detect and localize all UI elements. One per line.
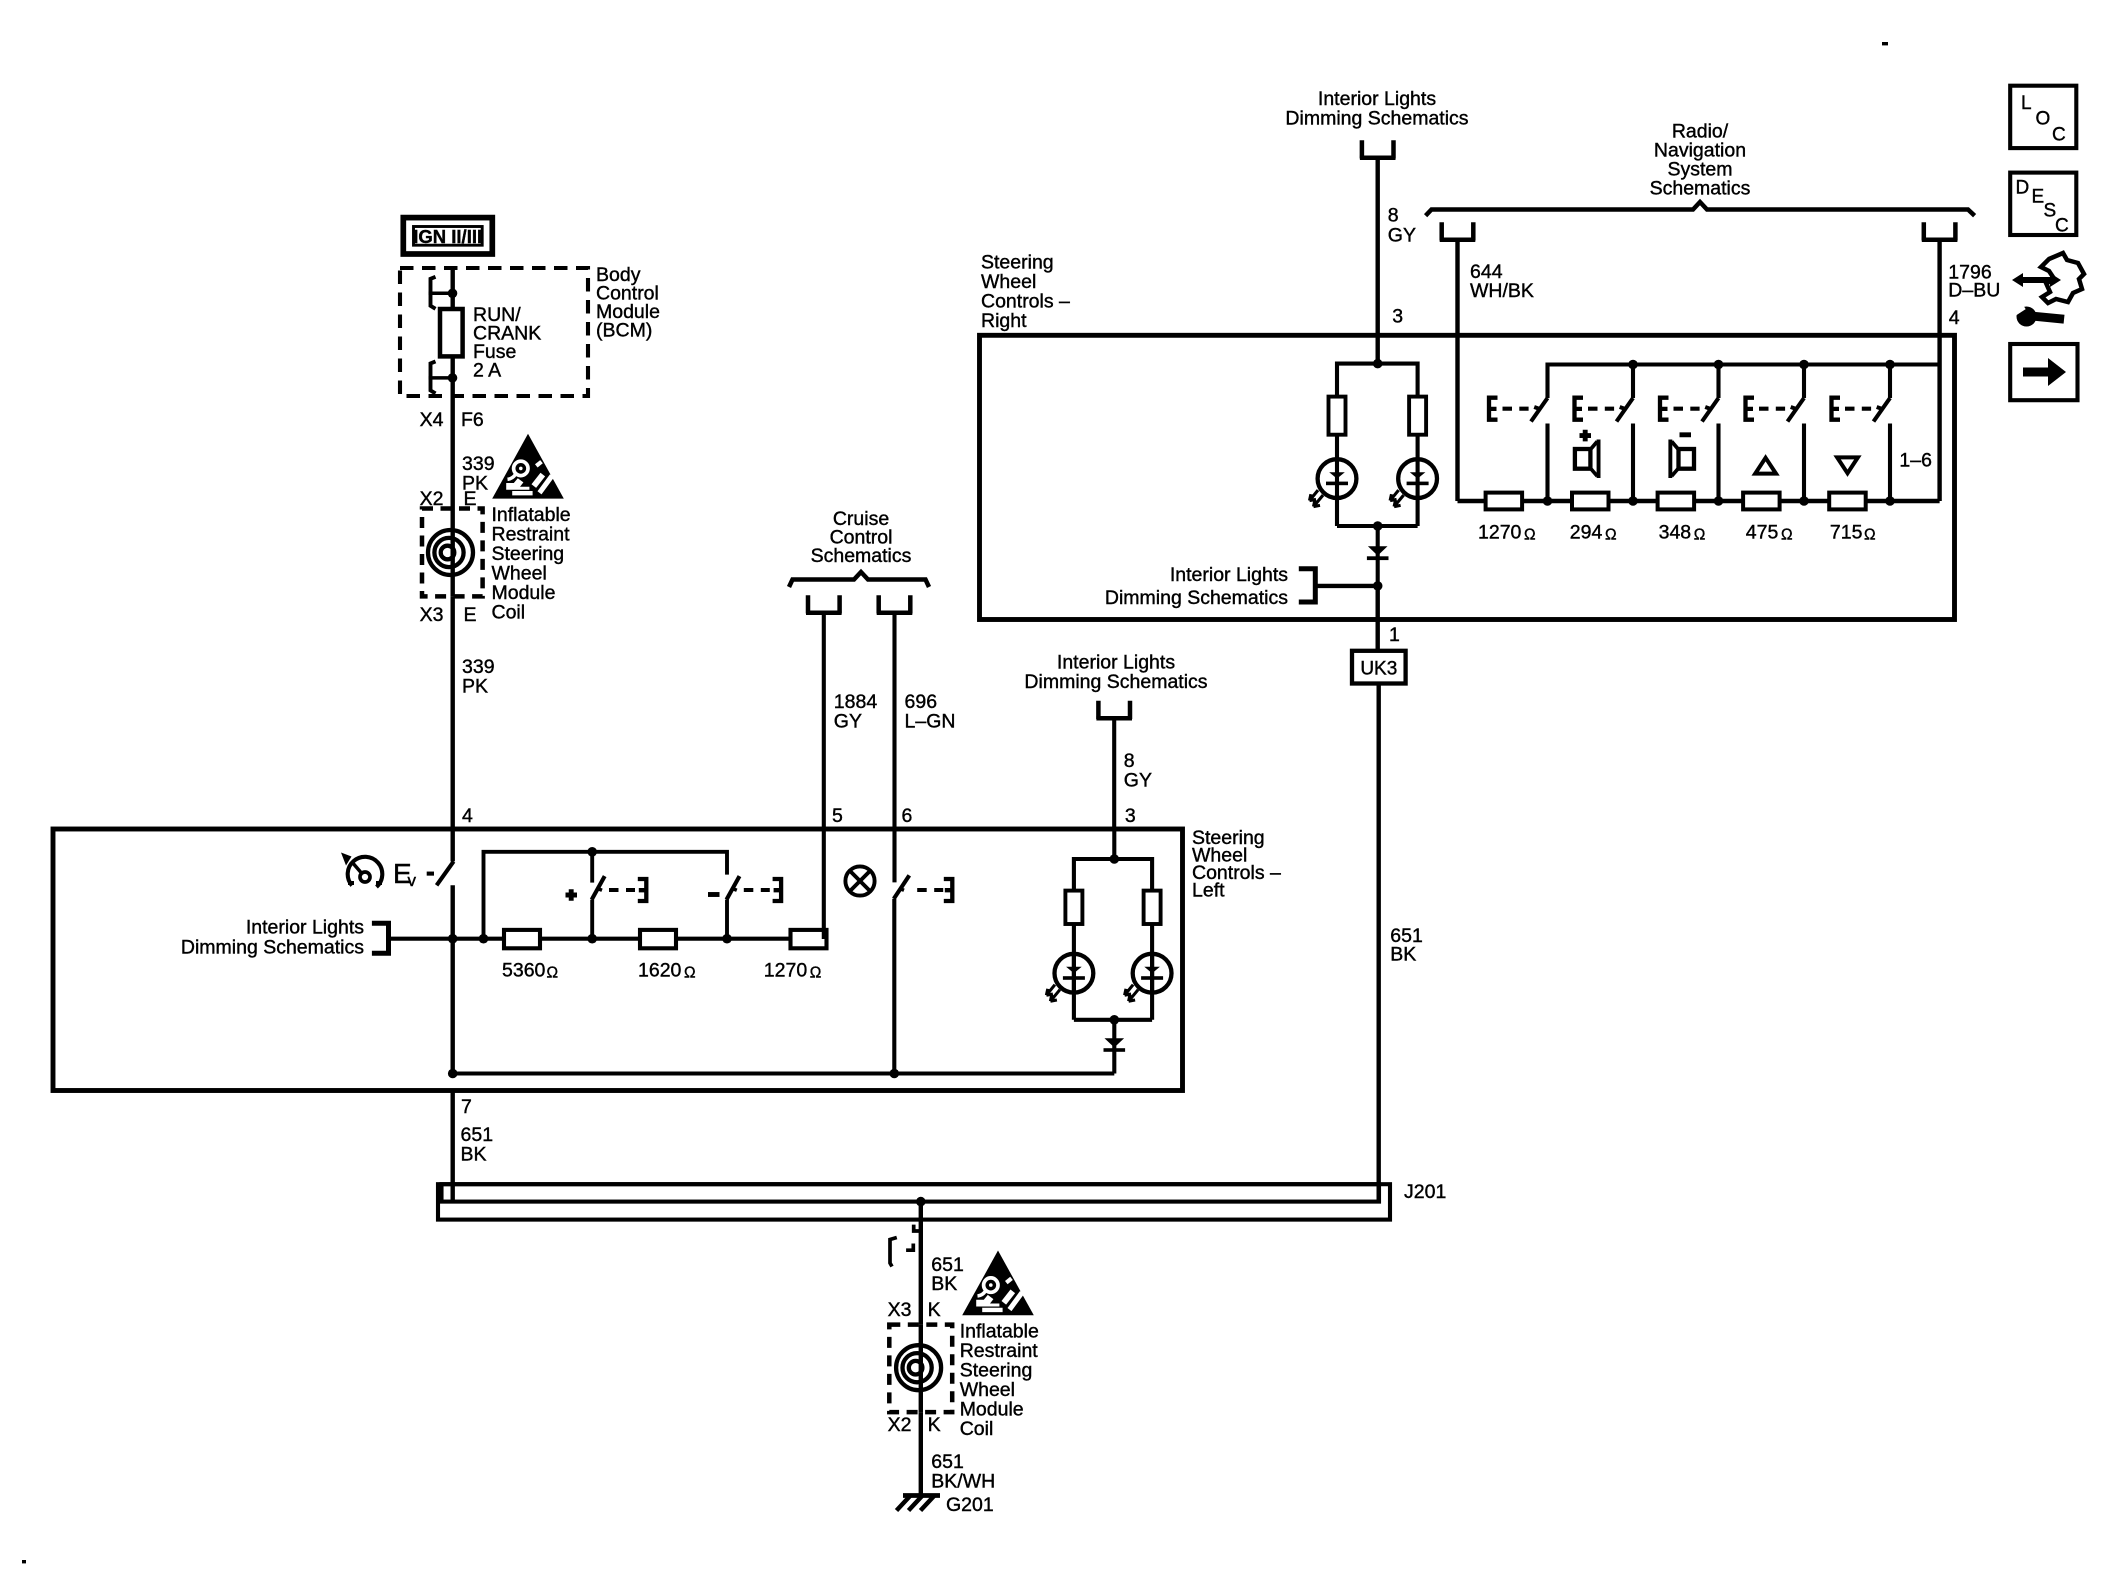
wire label 696 L-GN (905, 691, 956, 733)
wire rail bottom resistor chain (453, 937, 825, 941)
off-page connector cruise right (877, 595, 913, 613)
svg-text:Ω: Ω (1524, 527, 1536, 544)
svg-text:X2: X2 (888, 1414, 912, 1436)
ground G201 (897, 1496, 941, 1511)
svg-text:BK: BK (1390, 944, 1416, 966)
junction dot LED loop top right box (1373, 359, 1383, 369)
svg-text:D–BU: D–BU (1948, 280, 2000, 302)
wire resistor ladder top rail (484, 852, 728, 939)
resistor 715 (1829, 493, 1866, 510)
off-page bracket left (372, 923, 389, 953)
switch cruise on-off in left box (437, 829, 454, 939)
pin label 6 (902, 805, 913, 827)
svg-text:Schematics: Schematics (1650, 178, 1751, 200)
connector terminal at fuse top (429, 277, 458, 309)
wire 339 PK from coil to left box (451, 596, 455, 829)
label Interior Lights Dimming Schematics left (181, 917, 364, 959)
wire main down to bottom bus (451, 939, 455, 1074)
svg-text:Left: Left (1192, 880, 1225, 902)
junction dot lamp switch bus (890, 1069, 900, 1079)
connector UK3 (1352, 651, 1406, 684)
pin label X3 K (888, 1299, 941, 1321)
resistor 1270 left box (791, 930, 827, 948)
pin label 4 right box (1949, 307, 1960, 329)
svg-text:1620: 1620 (638, 960, 682, 982)
linkage dashes switch 3 (1674, 407, 1713, 410)
resistor LED right box right branch (1409, 397, 1426, 435)
page mark top right (1882, 42, 1888, 45)
svg-text:Coil: Coil (492, 602, 526, 624)
wire LED loop left box (1074, 859, 1152, 1020)
junction dot plus switch rail (587, 934, 597, 944)
junction dot bottom rail s2 (1628, 496, 1638, 506)
svg-text:Dimming Schematics: Dimming Schematics (1024, 671, 1207, 693)
junction dot top rail s3 (1714, 360, 1724, 370)
power label IGN II/III (403, 218, 492, 254)
value label 475 ohm (1746, 522, 1793, 544)
resistor 5360 (504, 930, 540, 948)
label Cruise Control Schematics (811, 508, 912, 567)
svg-text:8: 8 (1388, 205, 1399, 227)
lamp symbol (845, 866, 874, 895)
svg-text:Ω: Ω (810, 965, 822, 982)
LED indicator right box B (1390, 459, 1437, 506)
splice pack J201 (438, 1184, 1390, 1219)
svg-text:GY: GY (1388, 225, 1416, 247)
svg-text:G201: G201 (946, 1494, 994, 1516)
resistor 1620 (640, 930, 676, 948)
junction dot at main wire and rail (448, 934, 458, 944)
coil dashed box upper (422, 509, 483, 597)
in-line connector below J201 (890, 1225, 919, 1267)
svg-text:4: 4 (1949, 307, 1960, 329)
off-page connector interior lights top (1360, 140, 1396, 158)
junction dot J201 (916, 1197, 926, 1207)
wire label 651 BK bottom (931, 1254, 964, 1295)
junction dot bottom rail s3 (1714, 496, 1724, 506)
junction dot top rail s4 (1799, 360, 1809, 370)
wire label 1796 D-BU (1948, 261, 2000, 301)
svg-text:715: 715 (1830, 522, 1863, 544)
wire 651 BK from left box to J201 (451, 1091, 455, 1202)
nav icon arrow box (2010, 344, 2077, 400)
svg-text:3: 3 (1392, 306, 1403, 328)
value label 1270 ohm right box (1478, 522, 1536, 544)
svg-text:E: E (464, 604, 477, 626)
svg-text:X3: X3 (420, 604, 444, 626)
svg-text:Interior Lights: Interior Lights (1170, 564, 1288, 586)
linkage bracket switch 1 (1489, 398, 1498, 420)
wire label 651 BK right (1390, 925, 1423, 966)
speaker icon volume down (1668, 440, 1694, 479)
linkage dashes minus switch (744, 888, 770, 892)
svg-text:C: C (2052, 125, 2066, 146)
linkage bracket switch 2 (1575, 398, 1584, 420)
svg-text:BK: BK (461, 1144, 487, 1166)
SRS warning triangle lower (962, 1251, 1034, 1316)
wire label 651 BK left (461, 1124, 494, 1166)
junction dot LED loop bottom right box (1373, 521, 1383, 531)
page mark bottom left (22, 1560, 26, 1563)
linkage dashes switch 5 (1845, 407, 1884, 410)
pin label 3 left box (1125, 805, 1136, 827)
switch 3 (1702, 365, 1719, 502)
wire 651 BK from UK3 to J201 (1376, 684, 1380, 1201)
pin label 4 (462, 805, 473, 827)
resistor LED left branch (1065, 891, 1082, 924)
wire switch bank bottom rail (1458, 499, 1940, 503)
label G201 (946, 1494, 994, 1516)
value label 5360 ohm (502, 960, 558, 982)
wire 8 GY to right box pin 3 (1375, 160, 1379, 364)
off-page connector 644 (1440, 222, 1476, 240)
svg-text:F6: F6 (461, 409, 484, 431)
brace cruise control (789, 572, 929, 587)
value label 715 ohm (1830, 522, 1876, 544)
wire 339 PK trunk from BCM top to fuse (451, 268, 455, 309)
switch volume down (727, 876, 740, 939)
switch volume up (592, 852, 605, 939)
gauge dimmer icon (341, 853, 382, 888)
switch 4 (1788, 365, 1805, 502)
junction dot rail1 bottom (1543, 496, 1553, 506)
wire 1796 D-BU into right box (1937, 242, 1941, 502)
box Steering Wheel Controls Left (53, 829, 1183, 1091)
pin range label 1-6 (1899, 450, 1932, 472)
svg-text:GY: GY (834, 711, 862, 733)
svg-text:(BCM): (BCM) (596, 320, 652, 342)
wire 651 BK down from J201 (919, 1202, 923, 1325)
svg-text:Ω: Ω (1864, 527, 1876, 544)
coil dashed box lower (889, 1325, 952, 1413)
svg-text:5360: 5360 (502, 960, 546, 982)
diode left box (1104, 1020, 1126, 1074)
svg-text:C: C (2055, 215, 2069, 236)
linkage bracket lamp switch (944, 879, 953, 901)
wire 8 GY to left box pin 3 (1112, 720, 1116, 829)
linkage dashes lamp switch (917, 888, 943, 892)
svg-text:Ω: Ω (1694, 527, 1706, 544)
svg-text:L: L (2021, 93, 2032, 114)
label Interior Lights Dimming Schematics above left box pin 3 (1024, 652, 1207, 694)
resistor 475 (1743, 493, 1780, 510)
wire pin5 down to resistor chain (824, 829, 827, 937)
pin label X2 E (420, 488, 477, 510)
linkage bracket switch 5 (1832, 398, 1841, 420)
wire bracket to diode junction (1315, 584, 1377, 588)
svg-text:J201: J201 (1404, 1181, 1446, 1203)
svg-text:6: 6 (902, 805, 913, 827)
speaker icon volume up (1575, 440, 1601, 479)
wire 651 BK/WH to ground (919, 1412, 923, 1495)
svg-text:475: 475 (1746, 522, 1779, 544)
linkage dashes switch 4 (1759, 407, 1798, 410)
svg-text:Schematics: Schematics (811, 545, 912, 567)
box Steering Wheel Controls Right (980, 335, 1955, 619)
label Body Control Module (BCM) (596, 264, 660, 342)
LED indicator left box A (1046, 954, 1093, 1001)
nav icon double arrow with outline (2012, 253, 2084, 303)
label Interior Lights Dimming Schematics right box (1105, 564, 1288, 609)
SRS warning triangle upper (492, 434, 564, 499)
icon seek up triangle (1755, 458, 1776, 474)
wire bracket to junction (389, 937, 453, 941)
module BCM dashed box (400, 268, 588, 396)
svg-text:1270: 1270 (1478, 522, 1522, 544)
nav icon LOC box (2010, 86, 2076, 148)
svg-text:Ω: Ω (684, 965, 696, 982)
svg-text:1270: 1270 (764, 960, 808, 982)
value label 294 ohm (1570, 522, 1617, 544)
label minus speaker (1680, 432, 1692, 437)
svg-text:2 A: 2 A (473, 360, 501, 382)
svg-text:X3: X3 (888, 1299, 912, 1321)
svg-text:Interior Lights: Interior Lights (246, 917, 364, 939)
linkage dashes plus switch (609, 888, 635, 892)
resistor 294 (1572, 493, 1609, 510)
label Inflatable Restraint Steering Wheel Module Coil lower (960, 1321, 1039, 1441)
svg-text:K: K (928, 1299, 941, 1321)
junction dot bus main (448, 1069, 458, 1079)
wire pin 1 to UK3 (1375, 586, 1379, 651)
svg-text:Coil: Coil (960, 1418, 994, 1440)
pin label 1 (1389, 624, 1400, 646)
resistor 1270 right box (1486, 493, 1523, 510)
coil symbol upper (clockspring) (428, 509, 473, 597)
svg-text:L–GN: L–GN (905, 711, 956, 733)
junction dot bottom rail s5 (1885, 496, 1895, 506)
svg-text:Dimming Schematics: Dimming Schematics (1285, 108, 1468, 130)
label minus (708, 892, 720, 897)
wire 696 L-GN to pin 6 (892, 615, 896, 830)
junction dot top rail s2 (1628, 360, 1638, 370)
pin label X2 K (888, 1414, 941, 1436)
off-page bracket right box (1299, 569, 1316, 602)
value label 1270 ohm left box (764, 960, 822, 982)
nav icon DESC box (2010, 173, 2076, 237)
wire label 339 PK lower (462, 656, 495, 698)
svg-text:1: 1 (1389, 624, 1400, 646)
svg-text:IGN II/III: IGN II/III (413, 226, 482, 247)
label Inflatable Restraint Steering Wheel Module Coil upper (492, 504, 571, 624)
junction dot plus switch stub (587, 847, 597, 857)
wire switch bank top rail (1548, 365, 1940, 399)
svg-text:UK3: UK3 (1360, 659, 1397, 680)
wire 644 WH/BK into right box (1455, 242, 1459, 502)
junction dot top rail s5 (1885, 360, 1895, 370)
switch 2 (1617, 365, 1634, 502)
svg-text:Right: Right (981, 310, 1027, 332)
svg-text:348: 348 (1659, 522, 1692, 544)
label Radio Navigation System Schematics (1650, 121, 1751, 200)
off-page connector interior lights left box (1096, 701, 1132, 719)
off-page connector 1796 (1922, 222, 1958, 240)
LED indicator left box B (1125, 954, 1172, 1001)
label RUN/CRANK Fuse 2 A (473, 304, 541, 382)
wire label 339 PK upper (462, 453, 495, 495)
pin label 7 (461, 1096, 472, 1118)
svg-text:Ω: Ω (1781, 527, 1793, 544)
junction dot LED loop bottom left box (1110, 1015, 1120, 1025)
label Steering Wheel Controls Right (981, 252, 1070, 333)
pin label 3 right box (1392, 306, 1403, 328)
svg-text:4: 4 (462, 805, 473, 827)
wire fuse to lower connector (451, 356, 455, 378)
linkage bracket plus switch (638, 879, 647, 901)
wire label 8 GY left (1124, 750, 1152, 792)
svg-text:X4: X4 (420, 409, 444, 431)
pin label 5 (832, 805, 843, 827)
wire 1884 GY to pin 5 (822, 615, 826, 830)
junction dot LED loop top left box (1110, 854, 1120, 864)
switch 5 (1874, 365, 1891, 502)
wire label 651 BK/WH (931, 1451, 995, 1493)
switch 1 (1531, 398, 1548, 501)
svg-text:294: 294 (1570, 522, 1603, 544)
label Ev cruise switch (393, 858, 417, 890)
wire 339 PK from BCM to coil (451, 378, 455, 509)
pin label X4 F6 (420, 409, 484, 431)
label Interior Lights Dimming Schematics top (1285, 88, 1468, 130)
switch lamp dimmer (894, 829, 910, 1074)
value label 1620 ohm (638, 960, 696, 982)
svg-text:Dimming Schematics: Dimming Schematics (181, 937, 364, 959)
svg-text:BK: BK (931, 1273, 957, 1295)
svg-text:3: 3 (1125, 805, 1136, 827)
resistor LED right box left branch (1329, 397, 1346, 435)
brace radio navigation (1426, 202, 1975, 216)
svg-text:K: K (928, 1414, 941, 1436)
wire label 8 GY right (1388, 205, 1416, 247)
svg-text:Ω: Ω (547, 965, 559, 982)
linkage dashes switch 1 (1503, 407, 1542, 410)
svg-text:E: E (2032, 187, 2045, 208)
label Steering Wheel Controls Left (1192, 827, 1281, 902)
junction dot bottom rail s4 (1799, 496, 1809, 506)
pin label X3 E (420, 604, 477, 626)
svg-text:5: 5 (832, 805, 843, 827)
fuse RUN/CRANK 2A (440, 309, 463, 356)
wire internal bottom bus left box (453, 1071, 1115, 1075)
wire label 644 WH/BK (1470, 261, 1534, 302)
junction dot rail left vertical (479, 934, 489, 944)
svg-text:Dimming Schematics: Dimming Schematics (1105, 587, 1288, 609)
value label 348 ohm (1659, 522, 1706, 544)
icon seek down triangle (1837, 457, 1858, 473)
coil symbol lower (clockspring) (896, 1325, 941, 1413)
svg-text:PK: PK (462, 676, 488, 698)
nav icon wrench (2006, 301, 2064, 326)
linkage bracket switch 4 (1746, 398, 1755, 420)
svg-text:v: v (408, 871, 417, 890)
svg-text:GY: GY (1124, 770, 1152, 792)
linkage dash cruise switch (427, 872, 434, 876)
LED block left box feed wire (1112, 829, 1116, 859)
svg-text:WH/BK: WH/BK (1470, 280, 1534, 302)
connector terminal at fuse bottom (429, 361, 458, 393)
junction dot minus switch rail (722, 934, 732, 944)
resistor LED right branch (1144, 891, 1161, 924)
linkage dashes switch 2 (1588, 407, 1627, 410)
wire LED loop right box (1337, 364, 1418, 526)
diode right box (1367, 526, 1389, 586)
svg-text:O: O (2036, 109, 2051, 130)
svg-text:Ω: Ω (1605, 527, 1617, 544)
label J201 (1404, 1181, 1446, 1203)
svg-text:BK/WH: BK/WH (931, 1471, 995, 1493)
label plus (566, 889, 578, 901)
junction dot bracket wire (1373, 581, 1383, 591)
linkage bracket minus switch (773, 879, 782, 901)
label plus speaker (1580, 430, 1592, 442)
resistor 348 (1658, 493, 1695, 510)
wire label 1884 GY (834, 691, 878, 733)
svg-text:7: 7 (461, 1096, 472, 1118)
LED indicator right box A (1310, 459, 1357, 506)
svg-text:D: D (2016, 177, 2030, 198)
svg-text:1–6: 1–6 (1899, 450, 1932, 472)
off-page connector cruise left (806, 595, 842, 613)
linkage bracket switch 3 (1660, 398, 1669, 420)
